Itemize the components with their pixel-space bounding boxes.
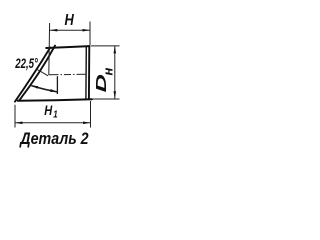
H dimension line bbox=[50, 29, 90, 31]
angle leader curve bbox=[36, 69, 48, 76]
H1 left arrowhead bbox=[15, 122, 23, 125]
angle arc left arrowhead bbox=[31, 86, 38, 89]
body right inner edge bbox=[85, 46, 87, 99]
svg-text:22,5°: 22,5° bbox=[14, 55, 38, 71]
vertical reference line (H left extension, ends at axis) bbox=[48, 23, 51, 75]
H1 right extension line bbox=[90, 101, 92, 128]
svg-text:1: 1 bbox=[53, 109, 57, 120]
Dn dimension line bbox=[114, 46, 116, 99]
H1 dimension line bbox=[15, 122, 91, 124]
Dn bottom extension line bbox=[93, 98, 120, 100]
svg-text:H: H bbox=[65, 12, 75, 29]
body top edge bbox=[46, 46, 89, 48]
H1 left extension line bbox=[14, 105, 16, 128]
svg-text:н: н bbox=[100, 68, 115, 76]
svg-text:H: H bbox=[44, 103, 53, 119]
H right extension line bbox=[89, 22, 91, 46]
body bottom edge bbox=[18, 99, 92, 101]
angle vertical reference segment bbox=[56, 76, 58, 94]
Dn top arrowhead bbox=[114, 46, 117, 54]
svg-text:Деталь 2: Деталь 2 bbox=[18, 130, 88, 148]
body slant outer line bbox=[15, 48, 50, 102]
svg-text:D: D bbox=[93, 74, 109, 92]
Dn bottom arrowhead bbox=[114, 91, 117, 99]
H right arrowhead bbox=[83, 29, 91, 32]
Dn top extension line bbox=[91, 45, 120, 47]
angle arc right arrowhead bbox=[50, 89, 57, 92]
axis centerline (dash-dot) bbox=[49, 73, 91, 76]
H left arrowhead bbox=[50, 29, 58, 32]
angle arc bbox=[31, 86, 57, 92]
body right outer edge bbox=[88, 46, 90, 99]
body slant inner line bbox=[19, 46, 55, 101]
H1 right arrowhead bbox=[83, 122, 91, 125]
